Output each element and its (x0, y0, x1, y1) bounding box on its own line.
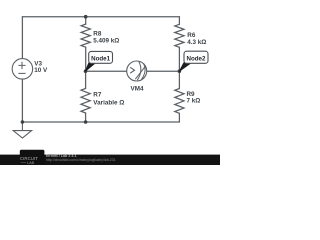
voltmeter VM4 circle (127, 61, 147, 81)
svg-text:LAB: LAB (27, 161, 35, 165)
voltmeter VM4 chevron (130, 67, 134, 73)
footer logo badge (20, 150, 45, 165)
wire R7 bottom stub (85, 113, 87, 122)
svg-text:Variable Ω: Variable Ω (93, 99, 124, 106)
wire R8 bottom stub to node A (85, 47, 87, 71)
wire node B to R9 top (178, 71, 180, 88)
wire bottom rail (22, 121, 179, 123)
junction dot bottom rail / ground (21, 120, 25, 124)
junction dot node B (178, 69, 182, 73)
voltmeter VM4 meter arc 1 (137, 62, 141, 81)
wire voltmeter right terminal to node B (147, 70, 180, 72)
footer bar (0, 155, 220, 165)
resistor R9 zigzag (175, 89, 184, 114)
svg-text:10 V: 10 V (34, 67, 48, 74)
svg-text:Node1: Node1 (91, 55, 110, 62)
node flag Node2 box (184, 51, 208, 63)
svg-text:R7: R7 (93, 92, 102, 99)
node flag Node1 box (89, 51, 113, 63)
junction dot top rail / R8 (84, 15, 88, 19)
voltage source V3 plus sign (18, 62, 25, 69)
wire R9 bottom stub (178, 113, 180, 122)
wire R6 top stub (178, 17, 180, 25)
ground symbol (13, 122, 31, 138)
voltmeter VM4 needle (135, 66, 145, 79)
wire R6 bottom stub to node B (178, 47, 180, 71)
voltage source V3 minus sign (18, 72, 25, 74)
resistor R7 zigzag (81, 88, 90, 113)
wire left rail lower (V3 minus terminal to bottom rail) (21, 79, 23, 122)
footer logo LAB line (21, 161, 27, 163)
resistor R8 zigzag (81, 24, 90, 47)
junction dot bottom rail / R7 (84, 120, 88, 124)
svg-text:7 kΩ: 7 kΩ (187, 98, 201, 105)
node flag Node2 tail (179, 63, 190, 72)
node flag Node1 tail (85, 63, 95, 72)
wire left rail upper (top rail to V3 plus terminal) (21, 17, 23, 59)
svg-text:R6: R6 (187, 32, 196, 39)
wire node A to voltmeter left terminal (86, 70, 127, 72)
junction dot node A (84, 69, 88, 73)
voltage source V3 circle (12, 59, 33, 80)
wire top rail (22, 16, 179, 18)
svg-text:VM4: VM4 (131, 85, 144, 92)
svg-text:Node2: Node2 (187, 55, 206, 62)
resistor R6 zigzag (175, 24, 184, 47)
svg-text:4.3 kΩ: 4.3 kΩ (187, 39, 206, 46)
voltmeter VM4 meter arc 2 (142, 64, 146, 80)
svg-text:http://circuitlab.com/c/nwtoyl: http://circuitlab.com/c/nwtoylog6caby/la… (46, 158, 116, 162)
svg-text:5.409 kΩ: 5.409 kΩ (93, 37, 119, 44)
wire R8 top stub (85, 17, 87, 24)
wire node A to R7 top (85, 71, 87, 88)
